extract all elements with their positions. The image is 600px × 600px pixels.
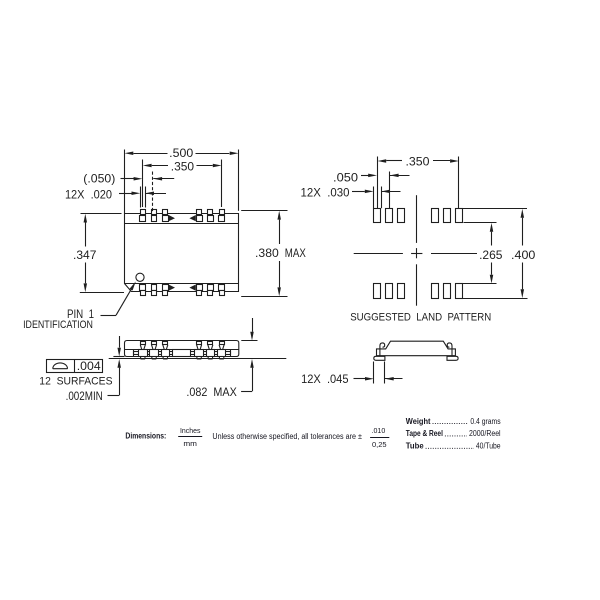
svg-text:12 SURFACES: 12 SURFACES [39,375,112,387]
svg-text:Tape & Reel: Tape & Reel [406,429,443,438]
svg-text:12X .020: 12X .020 [65,187,112,201]
svg-text:IDENTIFICATION: IDENTIFICATION [23,319,93,331]
svg-text:0,25: 0,25 [372,440,387,449]
svg-text:2000/Reel: 2000/Reel [469,429,501,438]
svg-text:(.050): (.050) [83,171,115,185]
svg-text:40/Tube: 40/Tube [476,442,501,451]
svg-text:.265: .265 [479,248,503,262]
svg-text:SUGGESTED LAND PATTERN: SUGGESTED LAND PATTERN [350,311,491,323]
svg-text:.002MIN: .002MIN [66,389,103,403]
svg-text:.004: .004 [77,359,101,373]
svg-text:Unless otherwise specified, al: Unless otherwise specified, all toleranc… [212,432,362,441]
svg-text:.050: .050 [333,171,358,185]
svg-text:.350: .350 [406,155,430,169]
svg-text:12X .030: 12X .030 [301,186,350,200]
svg-text:.500: .500 [169,146,193,160]
svg-text:MAX: MAX [285,246,306,260]
svg-text:.380: .380 [255,246,279,260]
svg-text:Inches: Inches [180,426,201,435]
svg-text:.082 MAX: .082 MAX [186,385,236,399]
svg-text:Tube: Tube [406,442,424,451]
svg-text:.350: .350 [171,159,195,173]
svg-text:.400: .400 [511,248,536,262]
svg-text:Dimensions:: Dimensions: [125,431,166,440]
svg-text:Weight: Weight [406,417,431,426]
svg-text:.347: .347 [73,248,97,262]
svg-text:0.4 grams: 0.4 grams [470,417,500,426]
svg-text:mm: mm [183,439,197,448]
svg-text:.010: .010 [372,426,386,435]
svg-text:12X .045: 12X .045 [301,372,349,386]
